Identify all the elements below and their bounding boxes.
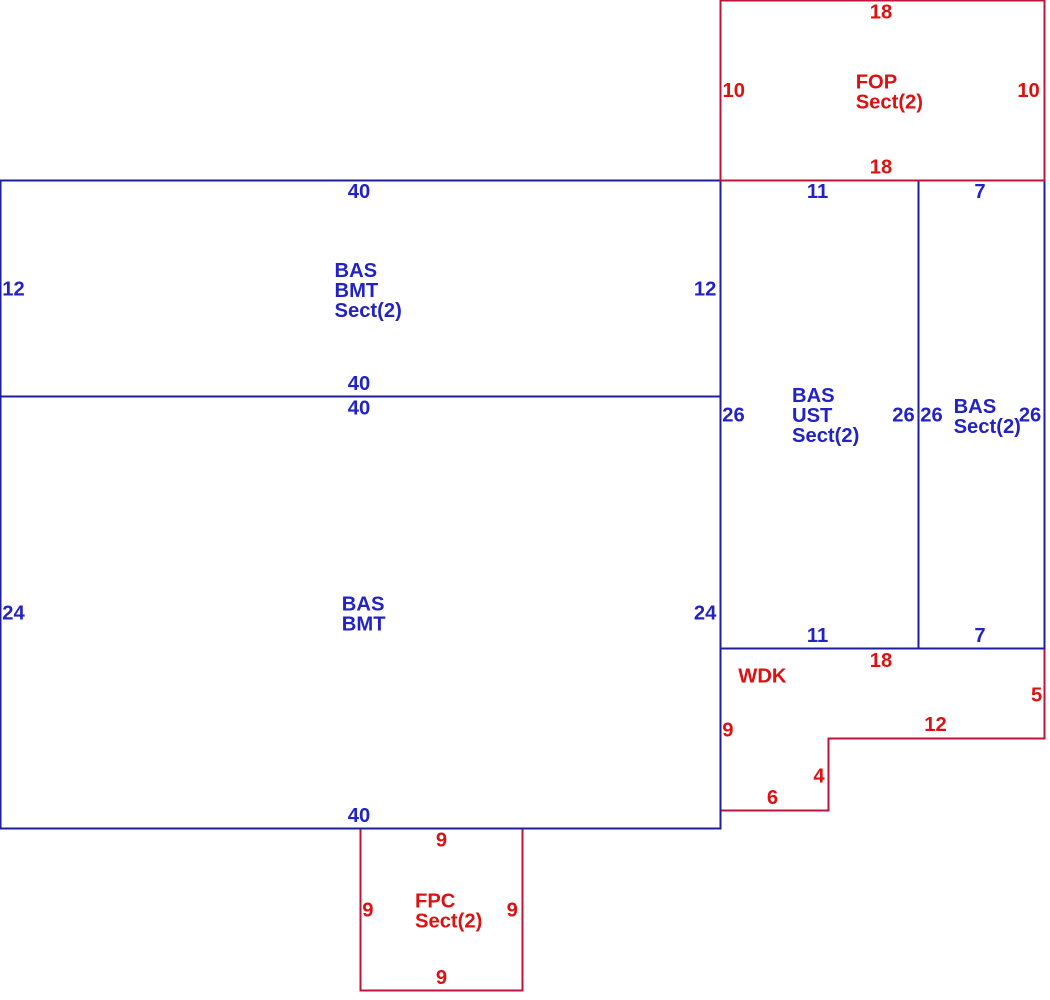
- svg-text:9: 9: [507, 899, 518, 921]
- svg-text:9: 9: [436, 967, 447, 989]
- svg-text:FPC: FPC: [415, 890, 456, 912]
- svg-text:24: 24: [2, 602, 25, 624]
- label BAS UST Sect(2): [792, 385, 859, 447]
- svg-text:Sect(2): Sect(2): [792, 425, 859, 447]
- svg-text:40: 40: [348, 398, 370, 420]
- svg-text:UST: UST: [792, 405, 833, 427]
- label BAS Sect(2): [954, 396, 1021, 438]
- svg-text:12: 12: [2, 278, 24, 300]
- FPC Sect(2) area outline: [361, 829, 523, 991]
- svg-text:4: 4: [813, 766, 825, 788]
- BAS BMT Sect(2) area outline: [1, 181, 721, 397]
- BAS UST Sect(2) area outline: [721, 181, 919, 649]
- svg-text:9: 9: [722, 719, 733, 741]
- svg-text:12: 12: [694, 278, 716, 300]
- svg-text:26: 26: [722, 404, 744, 426]
- svg-text:BAS: BAS: [342, 594, 385, 616]
- svg-text:Sect(2): Sect(2): [954, 416, 1021, 438]
- svg-text:Sect(2): Sect(2): [856, 91, 923, 113]
- svg-text:11: 11: [807, 181, 828, 203]
- svg-text:9: 9: [436, 830, 447, 852]
- svg-text:40: 40: [348, 373, 370, 395]
- svg-text:10: 10: [723, 80, 745, 102]
- svg-text:FOP: FOP: [856, 71, 898, 93]
- svg-text:18: 18: [870, 2, 892, 24]
- svg-text:WDK: WDK: [738, 666, 787, 688]
- svg-text:9: 9: [362, 899, 373, 921]
- label FOP Sect(2): [856, 71, 923, 113]
- svg-text:Sect(2): Sect(2): [335, 300, 402, 322]
- svg-text:BAS: BAS: [954, 396, 997, 418]
- svg-text:26: 26: [1019, 404, 1041, 426]
- WDK area outline: [721, 649, 1045, 811]
- label BAS BMT Sect(2): [335, 260, 402, 322]
- svg-text:24: 24: [694, 602, 717, 624]
- svg-text:6: 6: [767, 787, 778, 809]
- svg-text:18: 18: [870, 156, 892, 178]
- svg-text:40: 40: [348, 805, 370, 827]
- svg-text:BAS: BAS: [335, 260, 378, 282]
- svg-text:7: 7: [974, 181, 985, 203]
- FOP Sect(2) area outline: [721, 1, 1045, 181]
- svg-text:BMT: BMT: [342, 614, 386, 636]
- svg-text:BAS: BAS: [792, 385, 835, 407]
- svg-text:7: 7: [974, 625, 985, 647]
- svg-text:18: 18: [870, 650, 892, 672]
- svg-text:40: 40: [348, 181, 370, 203]
- svg-text:BMT: BMT: [335, 280, 379, 302]
- svg-text:12: 12: [924, 714, 946, 736]
- svg-text:Sect(2): Sect(2): [415, 911, 482, 933]
- svg-text:5: 5: [1031, 685, 1042, 707]
- svg-text:10: 10: [1017, 80, 1039, 102]
- svg-text:11: 11: [807, 625, 828, 647]
- label BAS BMT: [342, 594, 386, 636]
- label FPC Sect(2): [415, 890, 482, 932]
- svg-text:26: 26: [892, 404, 914, 426]
- BAS Sect(2) area outline: [919, 181, 1045, 649]
- BAS BMT area outline: [1, 397, 721, 829]
- svg-text:26: 26: [920, 404, 942, 426]
